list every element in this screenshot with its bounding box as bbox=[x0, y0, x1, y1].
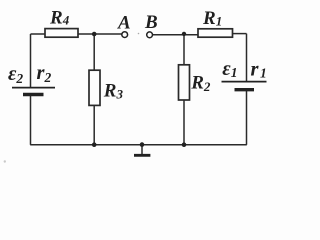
svg-text:R3: R3 bbox=[103, 81, 124, 102]
svg-text:ε1: ε1 bbox=[222, 58, 237, 80]
svg-text:R1: R1 bbox=[202, 8, 222, 29]
svg-text:A: A bbox=[117, 13, 131, 34]
svg-text:r1: r1 bbox=[251, 59, 267, 81]
svg-text:R4: R4 bbox=[49, 8, 70, 29]
svg-text:r2: r2 bbox=[37, 62, 52, 85]
svg-text:R2: R2 bbox=[190, 73, 211, 95]
svg-text:B: B bbox=[144, 12, 158, 33]
svg-text:ε2: ε2 bbox=[8, 63, 23, 86]
